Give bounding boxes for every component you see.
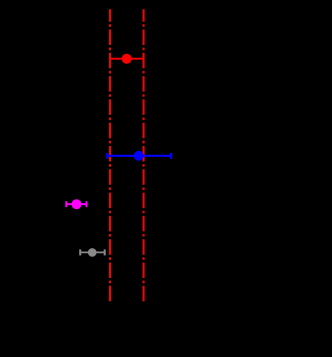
blue data marker bbox=[134, 151, 144, 161]
magenta errorbar right cap bbox=[86, 201, 88, 207]
blue errorbar right cap bbox=[170, 153, 172, 159]
blue errorbar horizontal line bbox=[107, 155, 171, 157]
red errorbar horizontal line bbox=[110, 58, 144, 60]
reference line left (red dash-dot vertical) bbox=[109, 9, 111, 301]
reference line right (red dash-dot vertical) bbox=[143, 9, 145, 301]
magenta data marker bbox=[72, 199, 82, 209]
gray errorbar left cap bbox=[79, 249, 81, 255]
magenta errorbar horizontal line bbox=[66, 203, 86, 205]
gray errorbar right cap bbox=[104, 249, 106, 255]
blue errorbar left cap bbox=[106, 153, 108, 159]
gray errorbar horizontal line bbox=[80, 251, 105, 253]
magenta errorbar left cap bbox=[65, 201, 67, 207]
red errorbar right cap bbox=[143, 56, 145, 62]
red errorbar left cap bbox=[109, 56, 111, 62]
gray data marker bbox=[88, 248, 97, 257]
red data marker bbox=[122, 54, 132, 64]
